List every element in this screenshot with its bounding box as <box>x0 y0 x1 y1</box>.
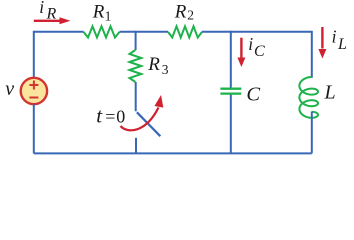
switch motion arrow <box>121 108 159 131</box>
wire top segment middle <box>120 31 169 33</box>
capacitor C <box>220 88 241 90</box>
resistor R1 <box>84 26 120 37</box>
resistor R2 <box>168 26 202 37</box>
switch bottom stub <box>135 138 137 154</box>
svg-text:i: i <box>39 0 44 17</box>
resistor R3 <box>130 50 142 82</box>
wire R3 branch top <box>135 31 137 50</box>
wire top segment right <box>202 31 312 33</box>
svg-text:C: C <box>246 83 260 105</box>
svg-text:=: = <box>105 107 115 127</box>
svg-text:2: 2 <box>187 8 194 23</box>
svg-text:R: R <box>147 54 160 75</box>
svg-text:L: L <box>324 82 336 104</box>
svg-text:v: v <box>5 78 14 100</box>
svg-text:C: C <box>254 43 265 60</box>
wire capacitor branch bottom <box>230 95 232 154</box>
svg-text:3: 3 <box>162 62 169 77</box>
svg-text:L: L <box>337 36 347 53</box>
svg-text:R: R <box>46 6 57 23</box>
current arrow iC <box>240 38 242 58</box>
wire R3 to switch <box>135 82 137 111</box>
wire left top <box>33 31 35 78</box>
current arrow iR <box>34 20 60 22</box>
wire top segment left <box>34 31 84 33</box>
switch blade <box>137 112 160 136</box>
wire right top <box>311 31 313 78</box>
wire capacitor branch top <box>230 31 232 88</box>
voltage source v <box>21 78 47 104</box>
svg-text:R: R <box>174 1 187 22</box>
wire right bottom <box>311 112 313 154</box>
current arrow iL <box>321 27 323 49</box>
inductor L <box>299 77 318 118</box>
svg-text:R: R <box>92 2 105 23</box>
svg-text:i: i <box>332 26 337 46</box>
wire left bottom <box>33 104 35 153</box>
svg-text:i: i <box>248 34 253 54</box>
svg-text:1: 1 <box>105 9 112 24</box>
svg-text:0: 0 <box>116 107 125 127</box>
wire bottom <box>34 152 312 154</box>
svg-text:t: t <box>96 104 103 128</box>
